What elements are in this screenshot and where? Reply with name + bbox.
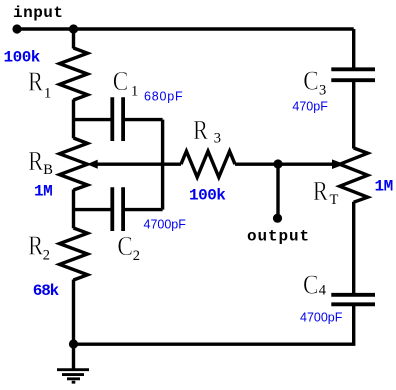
svg-text:R: R bbox=[313, 176, 328, 206]
potentiometer RT body bbox=[340, 148, 368, 202]
capacitor C4 plates bbox=[331, 295, 375, 305]
wire RB wiper net to R3 bbox=[96, 162, 181, 165]
svg-text:R: R bbox=[28, 146, 43, 176]
wire rail C4 to bottom and bottom net bbox=[74, 306, 354, 344]
svg-text:1M: 1M bbox=[375, 178, 393, 196]
resistor R1 bbox=[60, 48, 88, 100]
svg-text:4700pF: 4700pF bbox=[144, 218, 187, 232]
svg-text:3: 3 bbox=[214, 131, 221, 147]
svg-text:C: C bbox=[303, 66, 319, 96]
svg-text:T: T bbox=[330, 192, 339, 208]
wire C2 left lead bbox=[74, 208, 111, 211]
svg-text:input: input bbox=[13, 4, 64, 22]
svg-text:C: C bbox=[113, 66, 129, 96]
svg-text:R: R bbox=[28, 231, 43, 261]
svg-text:C: C bbox=[117, 231, 132, 261]
node output junction dot bbox=[273, 159, 282, 168]
resistor R3 bbox=[181, 151, 235, 177]
capacitor C2 plates bbox=[112, 187, 123, 231]
wire mid vertical C1 to C2 bbox=[161, 120, 164, 210]
svg-text:B: B bbox=[43, 162, 53, 178]
svg-text:1M: 1M bbox=[34, 183, 52, 201]
junction dot top rail bbox=[69, 24, 78, 33]
svg-text:4: 4 bbox=[319, 283, 327, 299]
wire right rail top to C3 bbox=[352, 29, 355, 68]
node input dot bbox=[12, 24, 21, 33]
svg-text:680pF: 680pF bbox=[144, 90, 183, 104]
wire rail C3 to RT bbox=[352, 82, 355, 149]
wire rail R2 to ground node bbox=[72, 280, 75, 345]
svg-text:C: C bbox=[303, 270, 319, 300]
svg-text:100k: 100k bbox=[4, 49, 41, 67]
wire rail R1 to RB bbox=[72, 100, 75, 139]
wire C1 left lead bbox=[74, 118, 111, 121]
wire R3 to output junction bbox=[235, 162, 278, 165]
wire C1 right lead to mid rail bbox=[125, 118, 163, 121]
wire top net input to C3 bbox=[17, 27, 354, 30]
RB wiper arrowhead bbox=[87, 160, 98, 169]
resistor R2 bbox=[60, 228, 88, 280]
wire output stem bbox=[276, 164, 279, 218]
svg-text:2: 2 bbox=[43, 247, 50, 263]
svg-text:3: 3 bbox=[319, 82, 326, 98]
svg-text:470pF: 470pF bbox=[292, 100, 328, 114]
potentiometer RB body bbox=[60, 138, 88, 190]
svg-text:4700pF: 4700pF bbox=[300, 311, 343, 325]
wire rail RT to C4 bbox=[352, 202, 355, 293]
ground symbol bbox=[57, 370, 89, 383]
wire left rail top bbox=[72, 29, 75, 49]
node output terminal dot bbox=[273, 214, 282, 223]
capacitor C1 plates bbox=[112, 97, 123, 141]
junction dot ground node bbox=[69, 339, 78, 348]
RT wiper arrowhead bbox=[332, 159, 345, 169]
wire C2 right lead to mid rail bbox=[125, 208, 163, 211]
svg-text:2: 2 bbox=[133, 248, 140, 264]
svg-text:R: R bbox=[28, 67, 43, 97]
svg-text:R: R bbox=[193, 115, 208, 145]
wire output junction to RT wiper bbox=[278, 162, 333, 165]
capacitor C3 plates bbox=[331, 69, 375, 80]
svg-text:1: 1 bbox=[44, 86, 51, 102]
wire rail RB to R2 bbox=[72, 190, 75, 229]
wire ground stem bbox=[72, 344, 75, 369]
svg-text:68k: 68k bbox=[33, 282, 60, 300]
svg-text:1: 1 bbox=[131, 84, 138, 100]
svg-text:100k: 100k bbox=[189, 187, 226, 205]
svg-text:output: output bbox=[247, 228, 310, 246]
